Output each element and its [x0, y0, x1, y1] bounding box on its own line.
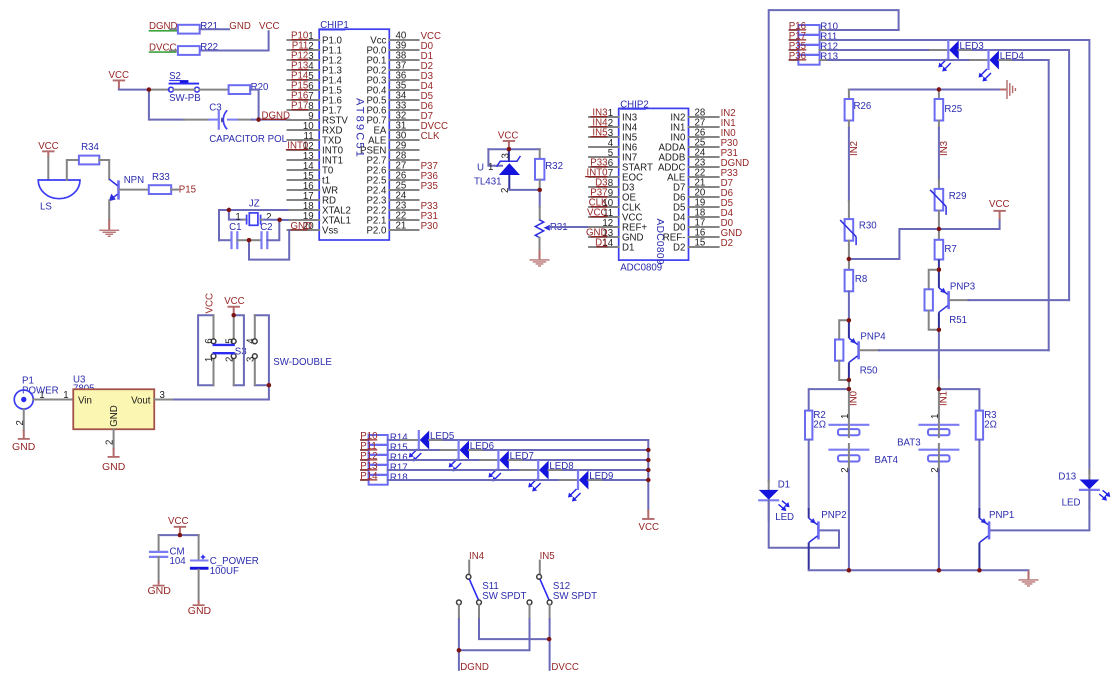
- CHIP2 pin 23 ADDC net DGND: [658, 158, 749, 174]
- CHIP1 pin 34 P0.5 net D5: [366, 91, 433, 107]
- junction R32 bottom: [538, 188, 542, 192]
- CHIP2 pin 9 OE net P37: [589, 188, 636, 204]
- svg-text:BAT3: BAT3: [897, 438, 921, 449]
- wire P36 stub: [790, 59, 799, 61]
- CHIP1 pin 28 P2.7: [366, 151, 418, 167]
- wire Vout to S3: [174, 399, 269, 401]
- CHIP1 pin 3 P1.2 net P12: [288, 51, 342, 67]
- CHIP1 pin 24 P2.3: [366, 191, 418, 207]
- wire R18 to LED9: [388, 479, 560, 481]
- wire DVCC to R22: [170, 50, 178, 52]
- junction battery right node: [937, 387, 941, 391]
- svg-text:1: 1: [63, 390, 68, 401]
- svg-text:IN3: IN3: [939, 141, 950, 156]
- wire R14 to LED5: [388, 439, 401, 441]
- svg-text:PNP3: PNP3: [950, 281, 975, 292]
- wire P14 stub: [361, 479, 369, 481]
- net label P13: [360, 461, 377, 472]
- wire R34 to NPN collector: [99, 160, 109, 179]
- junction bus BAT4: [847, 568, 851, 572]
- wire BAT3 to bottom bus: [938, 470, 940, 570]
- CHIP2 pin 14 D1 net D1: [589, 238, 634, 254]
- resistor R7: [938, 229, 940, 240]
- net label P11: [360, 441, 377, 452]
- svg-text:R30: R30: [859, 220, 877, 231]
- svg-text:ADC0809: ADC0809: [620, 263, 662, 274]
- svg-text:R20: R20: [251, 82, 269, 93]
- CHIP1 pin 39 P0.0 net D0: [366, 41, 433, 57]
- CHIP1 pin 31 EA net DVCC: [373, 121, 448, 137]
- CHIP2 pin 15 D2 net D2: [673, 238, 733, 254]
- junction caps midpoint: [247, 238, 251, 242]
- wire S11 left to DGND: [458, 619, 460, 670]
- resistor R16: [369, 452, 408, 464]
- CHIP2 pin 10 CLK net CLK: [589, 198, 642, 214]
- S3 pin 3: [254, 359, 256, 386]
- svg-text:LS: LS: [40, 201, 52, 212]
- svg-text:1: 1: [840, 414, 851, 419]
- svg-text:D2: D2: [721, 238, 733, 249]
- wire PNP4 to battery top: [848, 380, 850, 382]
- junction LED rail row4: [646, 468, 650, 472]
- svg-text:3: 3: [246, 357, 257, 362]
- wire C3 left lead: [184, 119, 209, 121]
- wire C_POWER top lead: [198, 535, 200, 560]
- CHIP1 pin 12 INT0 net INT0: [286, 141, 344, 157]
- wire R31 bottom to ground: [539, 238, 541, 250]
- wire R8 to PNP4 node: [848, 291, 850, 320]
- svg-text:LED: LED: [1062, 497, 1081, 508]
- wire C3 right lead: [227, 119, 239, 121]
- wire VCC to node: [939, 221, 1000, 230]
- svg-text:R32: R32: [545, 161, 563, 172]
- chip CHIP1 AT89C51 outline: [319, 29, 389, 240]
- svg-text:1: 1: [204, 357, 215, 362]
- svg-text:U: U: [477, 162, 484, 173]
- wire C_POWER bottom lead: [198, 570, 200, 601]
- wire P11 stub: [361, 449, 369, 451]
- svg-text:15: 15: [695, 238, 706, 249]
- S3 pin 1: [213, 359, 215, 386]
- transistor PNP2: [809, 508, 847, 570]
- svg-text:P35: P35: [421, 181, 438, 192]
- wire S11 right to DVCC node: [479, 619, 549, 639]
- CHIP1 pin 35 P0.4 net D4: [366, 81, 433, 97]
- resistor R34: [79, 156, 99, 165]
- chip CHIP2 ADC0809 outline: [619, 108, 689, 260]
- wire P1 pin1 to U3 Vin: [33, 399, 73, 401]
- CHIP2 pin 4 IN6: [589, 138, 637, 154]
- junction S3 output: [267, 383, 271, 387]
- svg-text:R33: R33: [152, 172, 170, 183]
- LED LED6: [449, 440, 494, 472]
- CHIP1 pin 25 P2.4 net P35: [366, 181, 437, 197]
- CHIP2 pin 3 IN5 net IN5: [589, 128, 637, 144]
- CHIP2 pin 13 GND net GND: [586, 228, 644, 244]
- wire BAT4 to bottom bus: [848, 470, 850, 570]
- svg-text:P30: P30: [421, 221, 439, 232]
- S3 pin 6: [213, 315, 215, 339]
- switch S12 SW SPDT: [527, 574, 597, 604]
- power VCC (LED rail): [647, 510, 649, 519]
- wire staircase node2 to node: [849, 229, 939, 259]
- svg-text:R51: R51: [949, 315, 967, 326]
- wire IN4 to S11: [468, 561, 470, 575]
- wire VCC down to R22: [200, 31, 269, 50]
- svg-text:2Ω: 2Ω: [813, 419, 826, 430]
- CHIP2 pin 24 ADDB net P31: [658, 148, 737, 164]
- CHIP1 pin 9 RSTV: [288, 111, 349, 127]
- svg-text:TL431: TL431: [474, 176, 501, 187]
- CHIP2 pin 20 D6 net D6: [673, 188, 733, 204]
- CHIP2 pin 6 START net P33: [589, 158, 653, 174]
- CHIP1 pin 33 P0.6 net D6: [366, 101, 433, 117]
- svg-text:SW SPDT: SW SPDT: [482, 591, 526, 602]
- svg-text:VCC: VCC: [989, 199, 1009, 210]
- resistor R33: [149, 185, 171, 194]
- svg-text:PNP1: PNP1: [989, 510, 1014, 521]
- LED D13: [1058, 470, 1110, 510]
- wire R16 to LED7: [388, 459, 481, 461]
- junction PNP4 emitter node: [847, 318, 851, 322]
- CHIP1 pin 1 P1.0 net P10: [288, 31, 343, 47]
- svg-text:D1: D1: [778, 480, 790, 491]
- svg-text:BAT4: BAT4: [875, 455, 899, 466]
- svg-text:SW-PB: SW-PB: [169, 93, 201, 104]
- CHIP2 pin 17 D0 net D0: [673, 218, 734, 234]
- svg-text:R29: R29: [949, 191, 967, 202]
- junction crystal right: [277, 218, 281, 222]
- svg-text:GND: GND: [102, 461, 126, 473]
- svg-text:VCC: VCC: [498, 130, 518, 141]
- svg-text:1: 1: [930, 414, 941, 419]
- CHIP2 pin 16 REF- net GND: [663, 228, 742, 244]
- svg-text:LED: LED: [775, 512, 794, 523]
- junction LED rail row5: [646, 478, 650, 482]
- wire R10 to loop: [820, 29, 828, 31]
- svg-text:GND: GND: [12, 441, 36, 453]
- svg-text:R13: R13: [820, 52, 838, 63]
- resistor R15: [369, 442, 408, 454]
- junction battery left node: [847, 387, 851, 391]
- svg-text:IN4: IN4: [469, 551, 485, 562]
- svg-text:IN5: IN5: [540, 551, 555, 562]
- wire C1 to midpoint: [237, 239, 249, 241]
- junction VCC caps: [178, 533, 182, 537]
- LED LED7: [488, 450, 533, 482]
- thermistor R29: [935, 189, 944, 211]
- wire C2 to right riser: [267, 220, 279, 240]
- battery BAT4: [828, 381, 898, 473]
- svg-text:104: 104: [170, 556, 187, 567]
- junction R30/R8 node: [847, 257, 851, 261]
- thermistor R30: [845, 219, 854, 241]
- wire LED7 to VCC rail: [509, 459, 524, 461]
- battery BAT3: [897, 381, 959, 473]
- wire S12 left to DGND node: [459, 619, 530, 650]
- wire PNP3 base: [950, 299, 969, 301]
- wire LED rail vertical: [647, 440, 649, 510]
- junction R29/R7/VCC node: [937, 227, 941, 231]
- wire caps top rail: [159, 534, 199, 536]
- CHIP1 pin 7 P1.6 net P16: [288, 91, 342, 107]
- CHIP2 pin 2 IN4 net IN4: [589, 118, 638, 134]
- switch S11 SW SPDT: [457, 574, 527, 604]
- svg-text:GND: GND: [229, 21, 251, 32]
- CHIP1 pin 19 XTAL1: [288, 211, 351, 227]
- svg-text:DGND: DGND: [460, 662, 489, 673]
- svg-text:R18: R18: [390, 472, 408, 483]
- resistor R3 2ohm: [976, 410, 997, 440]
- svg-text:6: 6: [204, 338, 215, 343]
- svg-text:2: 2: [15, 420, 26, 425]
- svg-text:1: 1: [39, 390, 44, 401]
- wire crystal to XTAL1 (pin19): [265, 219, 288, 221]
- resistor R22: [178, 46, 200, 55]
- junction LED rail row3: [646, 458, 650, 462]
- junction bus BAT3: [937, 568, 941, 572]
- wire TL431 anode to node: [509, 189, 539, 191]
- svg-text:Vin: Vin: [78, 396, 92, 407]
- S3 pin 5: [233, 315, 235, 339]
- wire S3 middle loop: [234, 315, 244, 385]
- power port GND (U3): [113, 448, 115, 456]
- wire U3 Vout pin3: [154, 399, 174, 401]
- CHIP1 pin 2 P1.1 net P11: [288, 41, 342, 57]
- resistor R21: [178, 25, 200, 34]
- wire node down to R31: [539, 190, 541, 207]
- junction DVCC: [547, 637, 551, 641]
- wire NPN base to R33: [119, 189, 149, 191]
- wire P1 pin2 down: [23, 409, 25, 430]
- svg-text:D1: D1: [622, 243, 634, 254]
- ground (bottom bus): [1028, 570, 1030, 579]
- CHIP2 pin 22 ALE net P33: [667, 168, 738, 184]
- CHIP1 pin 8 P1.7 net P17: [288, 101, 342, 117]
- CHIP2 pin 21 D7 net D7: [673, 178, 733, 194]
- S3 pin 4: [254, 315, 256, 339]
- wire LED3 to PNP3 base column: [959, 49, 973, 51]
- CHIP2 pin 25 ADDA net P30: [658, 138, 738, 154]
- svg-text:JZ: JZ: [249, 198, 260, 209]
- CHIP1 pin 32 P0.7 net D7: [366, 111, 433, 127]
- svg-text:Vss: Vss: [322, 226, 338, 237]
- wire P17 stub: [790, 39, 799, 41]
- svg-text:R50: R50: [860, 365, 878, 376]
- CHIP1 pin 16 WR: [288, 181, 339, 197]
- wire branch to R3: [939, 389, 980, 411]
- svg-text:VCC: VCC: [38, 141, 58, 152]
- wire PNP3 to battery node: [938, 330, 940, 382]
- CHIP2 pin 5 IN7: [589, 148, 637, 164]
- wire R15 to LED6: [388, 449, 441, 451]
- CHIP2 pin 8 D3 net D3: [589, 178, 634, 194]
- resistor R11: [798, 32, 837, 45]
- CHIP2 pin 1 IN3 net IN3: [589, 108, 637, 124]
- svg-text:CAPACITOR POL: CAPACITOR POL: [209, 134, 287, 145]
- wire TL431 ref loop: [488, 149, 502, 166]
- wire S12 right to DVCC: [549, 619, 551, 670]
- net label DGND (pin9): [259, 119, 290, 121]
- LED LED8: [528, 460, 573, 492]
- wire P10 stub: [361, 439, 369, 441]
- svg-text:PNP2: PNP2: [821, 510, 846, 521]
- wire bottom bus: [809, 569, 1029, 571]
- CHIP1 pin 23 P2.2 net P33: [366, 201, 437, 217]
- CHIP1 pin 29 PSEN: [360, 141, 418, 157]
- svg-text:DVCC: DVCC: [551, 662, 578, 673]
- CHIP1 pin 27 P2.6 net P37: [366, 161, 437, 177]
- svg-text:R22: R22: [200, 42, 218, 53]
- wire CM top lead: [158, 535, 160, 552]
- net label P12: [360, 451, 377, 462]
- svg-text:SW-DOUBLE: SW-DOUBLE: [273, 357, 332, 368]
- wire S12 throw right stub: [549, 605, 551, 619]
- wire S3 left loop: [198, 315, 213, 385]
- resistor R14: [369, 432, 409, 444]
- net label P36: [789, 51, 806, 62]
- loudspeaker LS: [38, 180, 80, 199]
- svg-text:R21: R21: [200, 21, 218, 32]
- svg-text:P2.0: P2.0: [366, 226, 387, 237]
- wire branch to R2: [809, 389, 849, 411]
- svg-text:IN0: IN0: [848, 390, 859, 406]
- wire VCC to LS pin1: [47, 157, 49, 180]
- CHIP1 pin 26 P2.5 net P36: [366, 171, 437, 187]
- resistor R8: [848, 259, 850, 270]
- svg-text:P15: P15: [179, 184, 196, 195]
- CHIP1 pin 5 P1.4 net P14: [288, 71, 343, 87]
- CHIP1 pin 11 TXD: [288, 131, 342, 147]
- CHIP1 pin 18 XTAL2: [288, 201, 351, 217]
- transistor PNP1: [979, 508, 1014, 570]
- wire D1 to PNP2 base: [769, 500, 839, 547]
- junction PNP3 emitter node: [937, 268, 941, 272]
- wire R33 to P15: [171, 189, 178, 191]
- CHIP2 pin 26 IN0 net IN0: [670, 128, 736, 144]
- svg-text:2: 2: [224, 357, 235, 362]
- junction node DGND (pin9): [256, 117, 260, 121]
- junction TL431 top: [507, 147, 511, 151]
- wire XTAL2 (pin18) to crystal loop: [219, 210, 288, 240]
- svg-text:SW SPDT: SW SPDT: [553, 591, 597, 602]
- CHIP2 pin 7 EOC net INT0: [585, 168, 643, 184]
- wire R21 to GND label: [200, 28, 229, 30]
- LED LED3: [938, 40, 983, 72]
- CHIP2 pin 19 D5 net D5: [673, 198, 733, 214]
- wire S3 right loop: [255, 315, 269, 385]
- wire LED8 to VCC rail: [549, 469, 564, 471]
- wire VCC to node: [119, 89, 149, 91]
- wire R3 to PNP1 emitter: [978, 440, 980, 509]
- CHIP1 pin 4 P1.3 net P13: [288, 61, 342, 77]
- resistor R18: [369, 472, 408, 484]
- wire R31 wiper to CHIP2 REF+: [550, 226, 589, 228]
- wire NPN emitter to ground: [108, 200, 110, 219]
- resistor R50: [839, 320, 849, 339]
- junction PNP4 collector node: [847, 378, 851, 382]
- ground (NPN emitter): [108, 219, 110, 229]
- wire IN5 to S12: [539, 561, 541, 575]
- svg-text:PNP4: PNP4: [860, 332, 886, 343]
- CHIP1 pin 40 Vcc net VCC: [370, 31, 441, 47]
- power port GND (C_POWER): [198, 601, 200, 605]
- svg-text:R26: R26: [854, 101, 872, 112]
- wire PNP4 base: [860, 349, 879, 351]
- net label P35: [789, 41, 806, 52]
- svg-text:1: 1: [488, 162, 493, 173]
- wire LS pin2 to R34: [67, 160, 79, 180]
- svg-text:5: 5: [224, 338, 235, 343]
- wire TL431 top rail: [488, 148, 539, 150]
- CHIP2 pin 28 IN2 net IN2: [670, 108, 735, 124]
- svg-text:VCC: VCC: [168, 516, 188, 527]
- wire D13 to PNP1 base: [990, 490, 1090, 531]
- CHIP1 pin 22 P2.1 net P31: [366, 211, 437, 227]
- wire caps midpoint to Vss pin20: [249, 230, 289, 260]
- wire LED9 to VCC rail: [588, 479, 603, 481]
- svg-text:NPN: NPN: [124, 175, 144, 186]
- resistor R10: [798, 22, 838, 35]
- svg-text:21: 21: [396, 221, 407, 232]
- wire node down-left leg to C3: [149, 90, 184, 120]
- svg-text:3: 3: [500, 153, 511, 158]
- resistor R20: [229, 85, 251, 94]
- svg-text:VCC: VCC: [224, 296, 244, 307]
- wire S2 to R20: [199, 89, 228, 91]
- wire P35 stub: [790, 49, 799, 51]
- wire LED5 to VCC rail: [429, 439, 444, 441]
- CHIP1 pin 36 P0.3 net D3: [366, 71, 433, 87]
- CHIP1 pin 10 RXD: [288, 121, 343, 137]
- svg-text:VCC: VCC: [205, 293, 216, 313]
- potentiometer R31: [535, 220, 567, 238]
- svg-text:R8: R8: [855, 274, 867, 285]
- power port GND (CM): [158, 581, 160, 585]
- junction R25 top: [937, 87, 941, 91]
- wire S11 throw left stub: [458, 605, 460, 619]
- resistor R2 2ohm: [805, 410, 826, 440]
- wire S3 output to Vout: [268, 385, 270, 399]
- S3 pin 2: [233, 359, 235, 386]
- svg-text:R34: R34: [81, 142, 99, 153]
- wire S11 throw right stub: [478, 605, 480, 619]
- LED D1: [758, 480, 794, 523]
- CHIP1 pin 38 P0.1 net D1: [366, 51, 433, 67]
- S3 switch bar bottom: [213, 352, 235, 354]
- wire R30 to node2: [848, 241, 850, 259]
- shunt regulator U TL431: [474, 149, 520, 193]
- net label P16: [789, 21, 806, 32]
- CHIP1 pin 6 P1.5 net P15: [288, 81, 342, 97]
- svg-text:2Ω: 2Ω: [984, 419, 997, 430]
- LED LED5: [409, 430, 454, 462]
- CHIP1 pin 30 ALE net CLK: [368, 131, 440, 147]
- svg-text:D2: D2: [673, 243, 685, 254]
- svg-text:VCC: VCC: [639, 522, 659, 533]
- wire P16 net top loop: [769, 10, 899, 481]
- ground (R31): [539, 250, 541, 260]
- wire U3 pin2 down: [113, 429, 115, 448]
- S3 switch bar top: [213, 344, 235, 346]
- wire node to S2: [149, 89, 169, 91]
- capacitor C_POWER 100UF: [190, 560, 209, 562]
- wire CM bottom lead: [158, 557, 160, 581]
- wire R25 to R29 / net label IN3: [938, 121, 940, 128]
- svg-text:CLK: CLK: [421, 131, 440, 142]
- svg-text:VCC: VCC: [109, 70, 129, 81]
- svg-text:100UF: 100UF: [210, 566, 239, 577]
